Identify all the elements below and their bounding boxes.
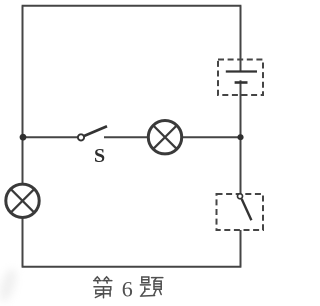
battery cell short plate	[235, 81, 248, 84]
battery cell long plate	[226, 70, 257, 72]
wire left vertical	[22, 6, 24, 267]
wire right vertical upper	[240, 6, 242, 72]
wire bottom	[22, 266, 242, 268]
wire middle left segment	[23, 136, 79, 138]
switch 2 blade	[242, 199, 252, 220]
node junction dot left	[20, 134, 27, 141]
caption character 题	[140, 277, 162, 296]
wire right vertical middle	[240, 80, 242, 196]
dashed box (switch position)	[217, 194, 264, 230]
switch S blade	[84, 126, 107, 136]
svg-text:S: S	[94, 145, 105, 167]
switch S pivot circle	[78, 134, 84, 140]
svg-text:6: 6	[122, 277, 133, 302]
switch 2 pivot circle	[238, 194, 243, 199]
wire right vertical lower	[240, 230, 242, 267]
node junction dot right	[237, 134, 243, 140]
dashed box (battery position)	[218, 60, 263, 96]
wire middle right segment	[104, 136, 241, 138]
wire top	[22, 5, 242, 7]
caption character 第	[94, 277, 112, 298]
lamp L2 (left)	[6, 184, 39, 217]
lamp L1 (middle)	[148, 121, 181, 154]
